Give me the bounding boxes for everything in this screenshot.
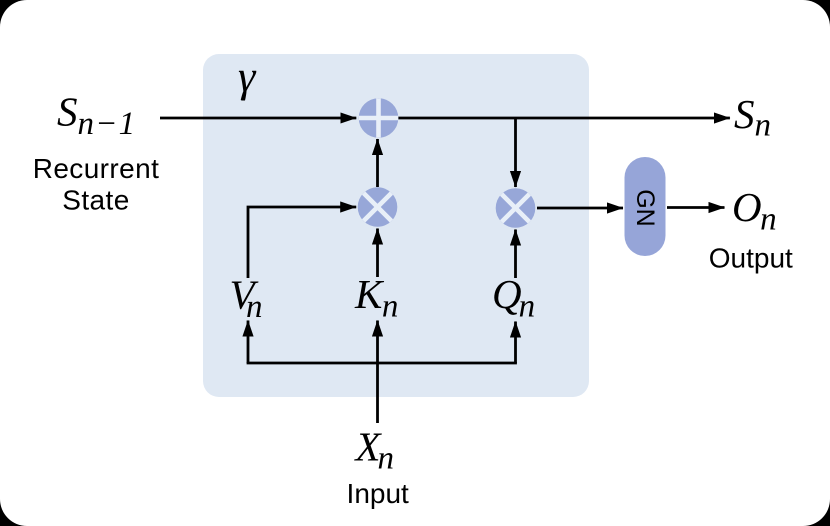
svg-text:Input: Input <box>347 478 409 509</box>
wire K_n to multiplier1 <box>376 229 379 278</box>
bottom collector wire <box>248 362 516 363</box>
svg-text:GN: GN <box>631 189 659 227</box>
adder node (circled plus) <box>359 98 399 138</box>
wire multiplier1 to adder <box>376 139 379 187</box>
cell block (shaded region) <box>203 54 589 397</box>
svg-text:Recurrent: Recurrent <box>33 153 160 184</box>
wire branch down to multiplier2 <box>514 118 517 187</box>
wire collector up to Q_n <box>514 322 517 364</box>
wire Q_n to multiplier2 <box>514 230 517 279</box>
svg-text:Output: Output <box>709 242 793 273</box>
wire adder to S_n <box>398 117 730 120</box>
wire V_n up and into multiplier1 <box>248 207 356 278</box>
wire collector up to V_n <box>247 321 250 364</box>
wire GN to O_n <box>667 206 725 209</box>
wire multiplier2 to GN <box>537 207 623 210</box>
multiplier node 2 (circled times) <box>496 188 536 228</box>
svg-text:State: State <box>62 185 129 216</box>
wire X_n up to K_n <box>376 321 379 424</box>
multiplier node 1 (circled times) <box>358 187 398 227</box>
svg-text:γ: γ <box>238 52 257 101</box>
label Recurrent State <box>33 153 160 216</box>
group-norm block GN <box>625 157 666 256</box>
wire S_{n-1} to adder <box>160 117 356 120</box>
